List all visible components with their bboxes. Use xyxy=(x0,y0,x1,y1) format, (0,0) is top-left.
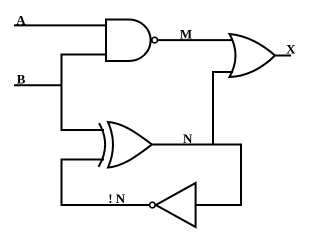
svg-text:M: M xyxy=(180,27,192,42)
inverter U4 triangle xyxy=(156,183,196,227)
wire B to XOR pin 1 xyxy=(62,129,104,131)
svg-text:X: X xyxy=(286,42,296,57)
wire M from NAND to OR pin 1 xyxy=(158,39,231,41)
wire into inverter input xyxy=(196,204,242,206)
wire vertical B bus xyxy=(61,55,63,131)
inverter U4 output bubble xyxy=(150,202,156,208)
wire N vertical down right side xyxy=(240,145,242,206)
wire N vertical up to OR pin 2 xyxy=(212,72,214,145)
wire feedback vertical left xyxy=(61,160,63,206)
wire X output xyxy=(275,55,290,57)
wire into OR pin 2 xyxy=(213,71,232,73)
wire N from XOR output xyxy=(152,144,241,146)
svg-text:!N: !N xyxy=(108,191,126,206)
nand gate U1 xyxy=(106,20,151,62)
wire !N from inverter output xyxy=(62,204,150,206)
nand U1 output bubble xyxy=(152,37,158,43)
xor gate U2 body xyxy=(108,122,152,168)
wire B input xyxy=(15,84,62,86)
xor gate U2 input arc xyxy=(99,124,105,166)
svg-text:B: B xyxy=(17,72,26,87)
svg-text:N: N xyxy=(183,131,193,146)
wire B to NAND pin 2 xyxy=(62,54,107,56)
or gate U3 xyxy=(230,34,276,77)
wire feedback to XOR pin 2 xyxy=(62,159,104,161)
wire A input to NAND pin 1 xyxy=(15,24,106,26)
